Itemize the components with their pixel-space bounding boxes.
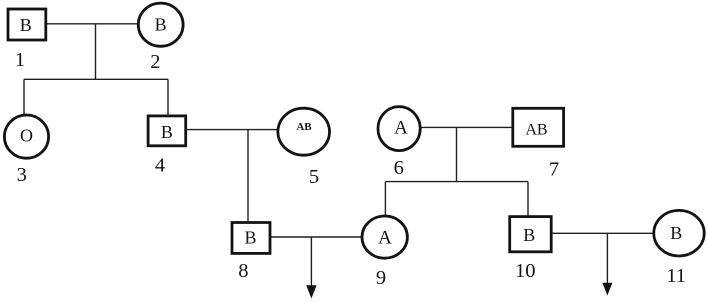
svg-text:3: 3 <box>17 164 27 186</box>
svg-text:9: 9 <box>376 267 386 289</box>
wire sibling bar of couple 1-2 <box>24 78 168 80</box>
svg-text:2: 2 <box>150 51 160 73</box>
individual 1 square male B <box>8 9 46 40</box>
individual 8 square male B <box>232 223 270 254</box>
wire marriage 1-2 <box>47 23 138 25</box>
wire drop to individual 9 <box>384 182 386 215</box>
individual 7 square male AB <box>513 108 564 146</box>
svg-text:1: 1 <box>15 49 25 71</box>
svg-text:O: O <box>20 125 33 145</box>
svg-text:B: B <box>155 15 167 35</box>
svg-text:8: 8 <box>238 260 248 282</box>
svg-text:B: B <box>244 228 256 248</box>
individual 4 square male B <box>148 116 186 146</box>
svg-text:4: 4 <box>155 155 165 177</box>
svg-text:B: B <box>20 15 32 35</box>
wire drop to individual 10 <box>527 182 529 216</box>
svg-text:10: 10 <box>515 260 536 282</box>
svg-text:B: B <box>670 223 682 243</box>
wire drop to individual 4 <box>167 79 169 114</box>
wire marriage 10-11 <box>553 232 653 234</box>
arrowhead offspring of 8-9 <box>306 285 316 298</box>
wire marriage 8-9 <box>271 236 361 238</box>
individual 11 circle female B <box>654 210 704 256</box>
wire drop from couple 6-7 <box>456 127 458 181</box>
wire marriage 6-7 <box>421 126 511 128</box>
arrow offspring of 8-9 shaft <box>310 237 312 287</box>
svg-text:6: 6 <box>394 157 404 179</box>
arrowhead offspring of 10-11 <box>602 283 612 296</box>
wire drop to individual 8 <box>247 130 249 222</box>
individual 2 circle female B <box>138 3 183 46</box>
individual 10 square male B <box>510 217 552 252</box>
svg-text:AB: AB <box>296 121 312 133</box>
wire marriage 4-5 <box>187 129 278 131</box>
svg-text:5: 5 <box>309 166 319 188</box>
individual 9 circle female A <box>362 216 407 258</box>
arrow offspring of 10-11 shaft <box>606 233 608 283</box>
svg-text:B: B <box>523 225 535 245</box>
individual 6 circle female A <box>378 107 420 151</box>
wire drop from couple 1-2 <box>95 24 97 80</box>
svg-text:B: B <box>161 122 173 142</box>
wire sibling bar of couple 6-7 <box>385 181 528 183</box>
svg-text:AB: AB <box>525 122 547 139</box>
svg-text:A: A <box>378 228 392 249</box>
wire drop to individual 3 <box>23 79 25 114</box>
svg-text:11: 11 <box>666 265 686 287</box>
svg-text:A: A <box>394 118 408 139</box>
individual 5 circle female AB <box>278 108 330 155</box>
svg-text:7: 7 <box>549 158 559 180</box>
individual 3 circle female O <box>4 115 48 158</box>
